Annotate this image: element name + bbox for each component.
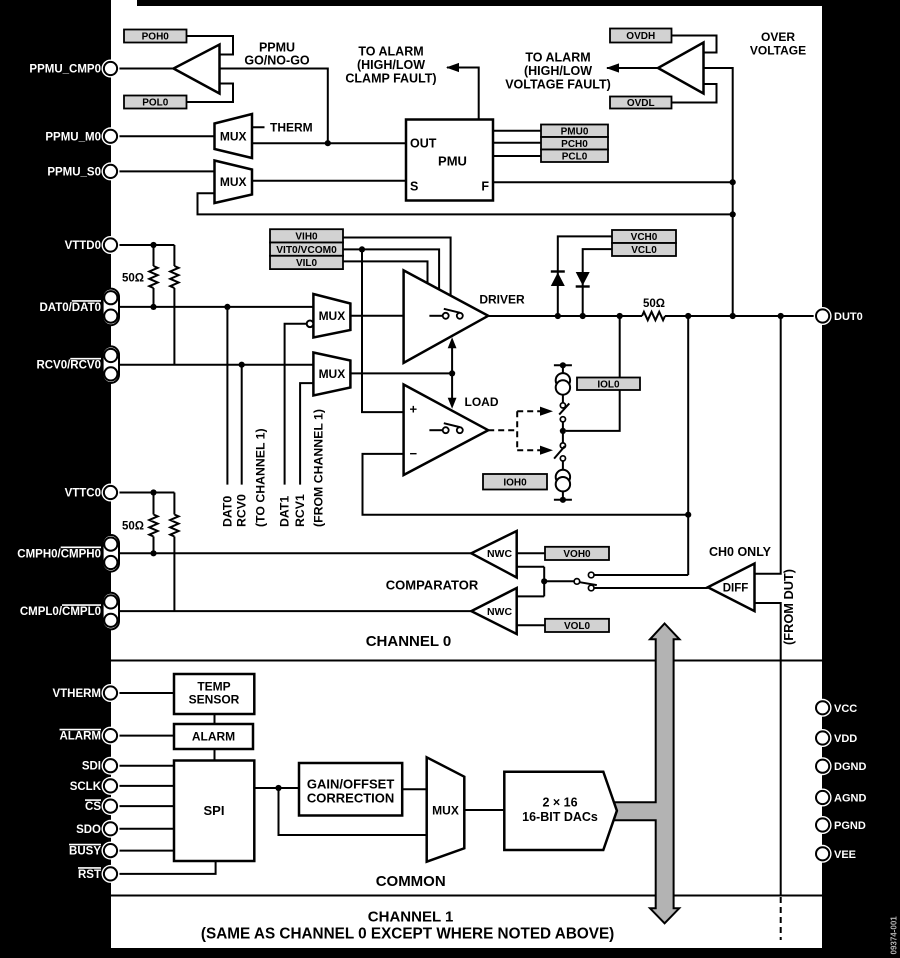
- svg-text:DAT1: DAT1: [278, 496, 292, 527]
- svg-text:PPMU_CMP0: PPMU_CMP0: [29, 64, 101, 76]
- svg-text:16-BIT DACs: 16-BIT DACs: [522, 810, 598, 824]
- svg-text:F: F: [481, 180, 489, 194]
- svg-text:SDI: SDI: [82, 761, 101, 773]
- svg-text:CHANNEL 1: CHANNEL 1: [368, 909, 454, 926]
- svg-text:SENSOR: SENSOR: [189, 693, 240, 707]
- svg-text:VIH0: VIH0: [295, 231, 318, 242]
- svg-text:ALARM: ALARM: [59, 731, 101, 743]
- svg-text:NWC: NWC: [487, 606, 512, 618]
- svg-text:+: +: [410, 402, 418, 417]
- svg-text:(SAME AS CHANNEL 0 EXCEPT WHER: (SAME AS CHANNEL 0 EXCEPT WHERE NOTED AB…: [201, 926, 614, 943]
- svg-text:PMU: PMU: [438, 154, 467, 169]
- svg-text:VOL0: VOL0: [564, 621, 591, 632]
- svg-text:PPMU_M0: PPMU_M0: [45, 131, 101, 143]
- svg-text:PMU0: PMU0: [561, 126, 589, 137]
- svg-text:OVDH: OVDH: [626, 31, 655, 42]
- svg-text:GO/NO-GO: GO/NO-GO: [244, 54, 310, 68]
- svg-text:VTHERM: VTHERM: [52, 688, 101, 700]
- svg-text:MUX: MUX: [220, 130, 247, 144]
- svg-text:PPMU: PPMU: [259, 41, 295, 55]
- svg-text:CMPH0/CMPH0: CMPH0/CMPH0: [17, 548, 101, 560]
- svg-text:VTTC0: VTTC0: [65, 488, 101, 500]
- svg-text:NWC: NWC: [487, 548, 512, 560]
- svg-text:(HIGH/LOW: (HIGH/LOW: [357, 58, 425, 72]
- svg-text:50Ω: 50Ω: [122, 521, 144, 533]
- svg-text:POL0: POL0: [142, 98, 169, 109]
- svg-text:(FROM DUT): (FROM DUT): [781, 569, 796, 645]
- svg-text:CS: CS: [85, 801, 101, 813]
- svg-text:(HIGH/LOW: (HIGH/LOW: [524, 64, 592, 78]
- svg-text:DIFF: DIFF: [723, 582, 749, 594]
- svg-text:LOAD: LOAD: [465, 395, 499, 409]
- svg-text:OVER: OVER: [761, 30, 795, 44]
- svg-text:GAIN/OFFSET: GAIN/OFFSET: [307, 777, 394, 792]
- svg-text:PCL0: PCL0: [562, 151, 588, 162]
- svg-text:MUX: MUX: [432, 804, 459, 818]
- svg-text:−: −: [410, 446, 418, 461]
- svg-text:RCV0/RCV0: RCV0/RCV0: [36, 360, 101, 372]
- svg-text:CMPL0/CMPL0: CMPL0/CMPL0: [20, 606, 101, 618]
- svg-text:VTTD0: VTTD0: [65, 240, 101, 252]
- svg-text:MUX: MUX: [319, 309, 346, 323]
- svg-text:TO ALARM: TO ALARM: [525, 50, 590, 64]
- svg-text:50Ω: 50Ω: [643, 298, 665, 310]
- svg-text:CHANNEL 0: CHANNEL 0: [366, 633, 452, 650]
- svg-text:PCH0: PCH0: [561, 139, 588, 150]
- svg-text:PPMU_S0: PPMU_S0: [47, 166, 101, 178]
- svg-text:COMPARATOR: COMPARATOR: [386, 578, 479, 593]
- svg-text:AGND: AGND: [834, 793, 866, 805]
- svg-text:TO ALARM: TO ALARM: [358, 44, 423, 58]
- svg-text:BUSY: BUSY: [69, 846, 101, 858]
- svg-text:RCV1: RCV1: [293, 494, 307, 527]
- svg-text:VCL0: VCL0: [631, 245, 657, 256]
- svg-text:IOL0: IOL0: [597, 379, 620, 390]
- svg-text:RCV0: RCV0: [235, 494, 249, 527]
- svg-text:IOH0: IOH0: [503, 477, 527, 488]
- svg-text:MUX: MUX: [319, 367, 346, 381]
- svg-text:SPI: SPI: [204, 803, 225, 818]
- svg-text:POH0: POH0: [142, 32, 170, 43]
- svg-text:DAT0/DAT0: DAT0/DAT0: [39, 302, 101, 314]
- svg-text:(FROM CHANNEL 1): (FROM CHANNEL 1): [311, 409, 325, 527]
- svg-text:CORRECTION: CORRECTION: [307, 791, 394, 806]
- svg-text:2 × 16: 2 × 16: [542, 796, 577, 810]
- svg-text:ALARM: ALARM: [192, 730, 235, 744]
- svg-text:VCH0: VCH0: [631, 232, 658, 243]
- svg-text:OVDL: OVDL: [627, 98, 655, 109]
- svg-text:50Ω: 50Ω: [122, 273, 144, 285]
- svg-text:VEE: VEE: [834, 849, 856, 861]
- svg-text:(TO CHANNEL 1): (TO CHANNEL 1): [254, 428, 268, 527]
- svg-text:DRIVER: DRIVER: [479, 293, 525, 307]
- svg-text:RST: RST: [78, 869, 101, 881]
- svg-text:SCLK: SCLK: [70, 781, 102, 793]
- svg-text:S: S: [410, 180, 418, 194]
- svg-text:VDD: VDD: [834, 733, 857, 745]
- svg-text:09374-001: 09374-001: [890, 916, 899, 955]
- svg-text:VCC: VCC: [834, 703, 857, 715]
- svg-text:VIT0/VCOM0: VIT0/VCOM0: [276, 245, 337, 256]
- svg-text:SDO: SDO: [76, 824, 101, 836]
- svg-text:DUT0: DUT0: [834, 311, 863, 323]
- svg-text:MUX: MUX: [220, 175, 247, 189]
- svg-text:VOH0: VOH0: [563, 549, 591, 560]
- svg-text:VOLTAGE: VOLTAGE: [750, 44, 806, 58]
- svg-text:VOLTAGE FAULT): VOLTAGE FAULT): [505, 77, 611, 91]
- svg-text:CLAMP FAULT): CLAMP FAULT): [345, 71, 436, 85]
- svg-text:DAT0: DAT0: [220, 496, 234, 527]
- svg-text:DGND: DGND: [834, 761, 866, 773]
- svg-text:VIL0: VIL0: [296, 258, 318, 269]
- svg-text:TEMP: TEMP: [197, 680, 230, 694]
- svg-text:CH0 ONLY: CH0 ONLY: [709, 545, 772, 559]
- svg-text:COMMON: COMMON: [376, 873, 446, 890]
- svg-text:THERM: THERM: [270, 121, 313, 135]
- svg-text:PGND: PGND: [834, 820, 866, 832]
- svg-text:OUT: OUT: [410, 137, 437, 151]
